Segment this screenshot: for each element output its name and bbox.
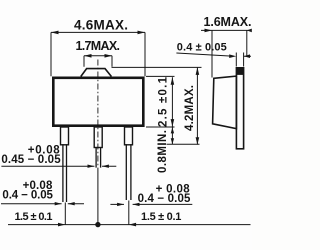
tab front view <box>81 69 112 77</box>
arrows 2.5 <box>171 77 175 85</box>
dimension 4.2 line <box>196 68 198 145</box>
ext line 1.6 left <box>211 30 213 77</box>
ext line lead1 bottom <box>64 203 66 225</box>
leader 0.4 right <box>110 203 192 205</box>
drop line left 1.7 <box>83 56 85 67</box>
side view lead strip <box>236 68 243 149</box>
svg-text:0.45 − 0.05: 0.45 − 0.05 <box>1 154 61 166</box>
svg-text:4.2MAX.: 4.2MAX. <box>184 85 196 131</box>
arrows 1.5 bottom <box>58 223 65 227</box>
lead 1 narrow <box>63 144 67 202</box>
leader 0.4 left <box>1 203 84 205</box>
bottom leader 1.5 <box>8 224 251 226</box>
dimension 0.8 line <box>171 127 173 144</box>
ext lines lead thickness <box>236 53 243 67</box>
arrows 1.7 <box>84 54 92 58</box>
arrow 0.4±0.05 <box>229 54 236 58</box>
arrows 4.2 <box>196 67 200 75</box>
dimension 4.6MAX line <box>51 31 145 33</box>
lead 2 narrow <box>96 147 101 168</box>
center line (dash-dot) <box>97 60 99 168</box>
arrows 0.8 <box>171 127 174 133</box>
leader 0.4±0.05 <box>176 53 251 56</box>
ext line left 4.6 <box>50 32 52 76</box>
dimension 1.7MAX line <box>84 55 112 57</box>
lead 3 base <box>125 127 133 145</box>
svg-text:0.4 − 0.05: 0.4 − 0.05 <box>2 190 53 202</box>
svg-text:1.5 ± 0.1: 1.5 ± 0.1 <box>141 211 181 223</box>
svg-text:4.6MAX.: 4.6MAX. <box>74 18 128 33</box>
svg-text:0.4 ± 0.05: 0.4 ± 0.05 <box>177 41 227 53</box>
ext line lead2 bottom <box>97 168 99 225</box>
ext line lead step right <box>167 143 200 145</box>
ext line lead3 bottom <box>128 201 130 225</box>
ext line body bottom right <box>146 126 175 128</box>
arrows 0.45 <box>88 165 95 168</box>
package body front view <box>53 78 143 126</box>
arrows 4.6 <box>51 31 59 35</box>
ext line 1.6 right <box>246 30 248 57</box>
lead 1 base <box>61 127 69 145</box>
lead 3 narrow <box>126 144 131 200</box>
svg-text:1.6MAX.: 1.6MAX. <box>204 15 252 29</box>
svg-text:2.5 ±0.1: 2.5 ±0.1 <box>158 76 170 127</box>
ext line tab top right <box>112 66 202 68</box>
ext line right 4.6 <box>144 32 146 76</box>
leader 0.45 <box>1 165 116 167</box>
svg-text:0.8MIN.: 0.8MIN. <box>157 130 169 173</box>
side view tab black fill <box>237 68 243 74</box>
svg-text:1.7MAX.: 1.7MAX. <box>76 39 121 53</box>
arrows 1.6 (inward from outside) <box>205 29 213 33</box>
svg-text:1.5 ± 0.1: 1.5 ± 0.1 <box>15 211 53 223</box>
arrows 0.4 right <box>117 203 124 206</box>
dimension 1.6MAX line <box>201 29 251 31</box>
lead 2 (center) base <box>94 127 102 148</box>
drop line right 1.7 <box>111 56 113 67</box>
arrows 0.4 left <box>55 202 62 205</box>
arrowheads <box>51 29 252 228</box>
dimension 2.5 line <box>171 77 173 126</box>
side view body <box>213 76 237 129</box>
ext line body top right <box>146 75 175 77</box>
svg-text:0.4 − 0.05: 0.4 − 0.05 <box>138 193 191 205</box>
